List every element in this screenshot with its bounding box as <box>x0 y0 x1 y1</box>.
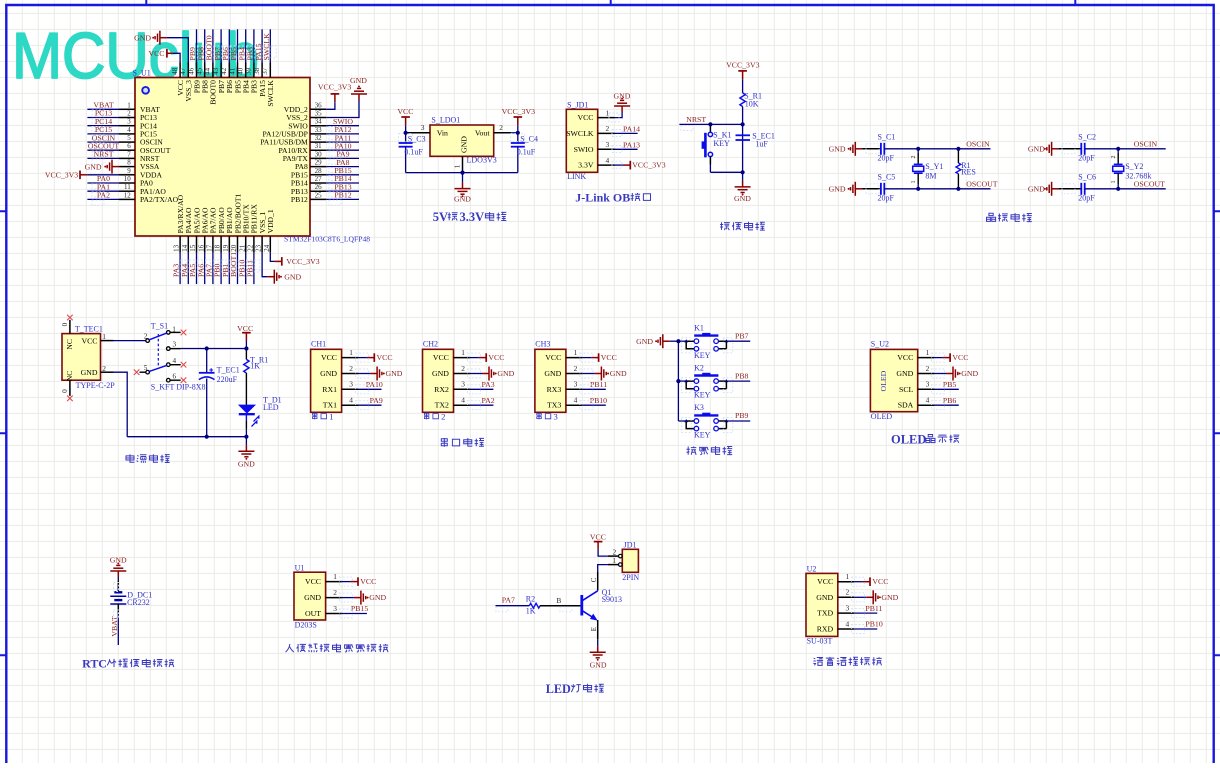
U1 pin 11 PA1/AO <box>119 183 166 196</box>
power VCC_3V3 at U1 pin 36 <box>318 83 351 110</box>
svg-text:1: 1 <box>926 348 930 357</box>
wire net PB6 at S_U2 pin 4 <box>932 396 959 410</box>
U1 pin 15 PA5/AO <box>189 207 201 253</box>
svg-text:RXD: RXD <box>817 625 834 634</box>
svg-text:20pF: 20pF <box>1078 154 1095 163</box>
svg-text:1K: 1K <box>526 607 536 616</box>
ground above RTC battery <box>110 556 127 577</box>
junction LED bottom <box>244 435 248 439</box>
wire net PB12 pin 25 <box>326 191 359 206</box>
wire key ground rail <box>677 341 679 421</box>
svg-text:PA2: PA2 <box>482 396 495 405</box>
designator S_U1 <box>133 68 151 77</box>
capacitor S_C2 20pF <box>1059 132 1096 162</box>
svg-text:VCC: VCC <box>577 113 593 122</box>
capacitor S_C1 20pF <box>862 132 895 162</box>
svg-text:S_KFT DIP-8X8: S_KFT DIP-8X8 <box>151 382 206 391</box>
wire OSCOUT row right <box>1085 179 1166 188</box>
svg-text:VCC: VCC <box>601 353 617 362</box>
svg-text:GND: GND <box>350 76 367 85</box>
U1 pin 13 PA3/RX/AO <box>173 194 185 252</box>
wire net BOOT1 pin 20 <box>229 252 243 284</box>
svg-text:32: 32 <box>315 134 323 142</box>
svg-text:PB7: PB7 <box>735 331 749 340</box>
wire net PA10 at CH1 pin 3 <box>356 380 383 394</box>
junction at LDO pin1 / rail <box>460 171 464 175</box>
crystal S_Y2 32.768k <box>1111 149 1152 189</box>
U1 pin 14 PA4/AO <box>181 207 193 253</box>
svg-text:TYPE-C-2P: TYPE-C-2P <box>76 381 116 390</box>
svg-text:2: 2 <box>144 332 148 340</box>
U1 pin 31 PA10/RX <box>279 142 327 155</box>
U1 pin 18 PB0/AO <box>214 207 226 253</box>
svg-text:29: 29 <box>315 159 323 167</box>
svg-text:Vin: Vin <box>437 129 448 138</box>
svg-text:VCC: VCC <box>377 353 393 362</box>
wire net OSCOUT pin 6 <box>87 141 119 156</box>
wire TEC1 GND down to bottom rail <box>114 372 128 437</box>
CH3 pin 3 RX3 <box>547 380 583 394</box>
capacitor S_C3 0.1uF <box>399 133 426 173</box>
U1 pin 24 VDD_1 <box>263 209 275 253</box>
svg-text:1: 1 <box>612 556 616 565</box>
svg-text:2: 2 <box>499 123 503 132</box>
U1 pin 40 PB4 <box>237 63 251 94</box>
svg-text:41: 41 <box>228 67 236 75</box>
svg-text:OUT: OUT <box>305 609 321 618</box>
svg-text:OLED: OLED <box>879 370 888 391</box>
svg-text:20pF: 20pF <box>1078 194 1095 203</box>
power VCC at CH2 pin 1 <box>468 353 505 362</box>
U1 pin 37 SWCLK <box>261 63 275 107</box>
junction EC1 bottom <box>205 435 209 439</box>
svg-text:PB11: PB11 <box>865 604 882 613</box>
power VCC above power rail <box>237 324 253 349</box>
resistor S_R1 10K <box>740 91 762 108</box>
svg-text:VCC: VCC <box>433 353 449 362</box>
U1 pin 23 VSS_1 <box>255 212 267 253</box>
svg-text:8: 8 <box>127 159 131 167</box>
svg-text:GND: GND <box>110 556 127 565</box>
U1 pin 2 PC13 <box>119 110 157 123</box>
U1 pin 39 PB3 <box>245 63 259 94</box>
svg-text:1: 1 <box>574 348 578 357</box>
U1 pin 33 PA12/USB/DP <box>262 126 326 139</box>
svg-text:CH3: CH3 <box>535 340 550 349</box>
U1 pin 12 PA2/TX/AO <box>119 191 179 204</box>
svg-text:PA9: PA9 <box>370 396 383 405</box>
wire net PA3 pin 13 <box>172 253 186 284</box>
svg-text:LED: LED <box>263 403 279 412</box>
svg-text:2: 2 <box>574 364 578 373</box>
connector JD1 2PIN body <box>622 540 639 582</box>
svg-text:40: 40 <box>237 67 245 75</box>
svg-text:OSCIN: OSCIN <box>1134 139 1158 148</box>
CH3 pin 2 GND <box>544 364 582 378</box>
svg-text:GND: GND <box>816 593 833 602</box>
wire net PB0 pin 18 <box>213 253 227 284</box>
S_LDO1 pin 1 GND <box>453 156 463 172</box>
wire power bottom rail <box>127 436 246 438</box>
wire net PB5 at S_U2 pin 3 <box>932 380 959 394</box>
svg-text:GND: GND <box>881 593 898 602</box>
svg-text:S_Y1: S_Y1 <box>925 162 943 171</box>
wire net PA8 pin 29 <box>326 158 359 173</box>
svg-text:7: 7 <box>127 150 131 158</box>
svg-text:GND: GND <box>386 369 403 378</box>
svg-text:LINK: LINK <box>567 172 586 181</box>
wire net PA2 pin 12 <box>87 191 119 206</box>
svg-text:3: 3 <box>173 341 177 349</box>
wire net SWCLK pin 37 <box>262 29 276 62</box>
svg-text:PA13: PA13 <box>623 141 640 150</box>
svg-text:3: 3 <box>421 123 425 132</box>
svg-text:2: 2 <box>461 364 465 373</box>
svg-text:K3: K3 <box>694 403 704 412</box>
connector S_JD1 LINK body <box>566 100 597 181</box>
svg-text:20pF: 20pF <box>878 194 895 203</box>
wire net PB10 at CH3 pin 4 <box>580 396 607 410</box>
ground at CH2 pin 2 <box>468 367 515 381</box>
svg-text:VCC: VCC <box>81 336 97 345</box>
svg-text:0.1uF: 0.1uF <box>404 148 423 157</box>
svg-text:J-Link OB: J-Link OB <box>575 191 630 205</box>
U1 sensor pin 2 GND <box>304 588 342 602</box>
wire OSCOUT row <box>884 179 997 188</box>
title RTC external power module <box>82 657 174 671</box>
svg-text:LDO3V3: LDO3V3 <box>467 156 497 165</box>
svg-text:27: 27 <box>315 175 323 183</box>
svg-text:1: 1 <box>127 101 131 109</box>
U1 pin 34 SWIO <box>288 118 326 131</box>
svg-text:39: 39 <box>245 67 253 75</box>
svg-text:2: 2 <box>127 110 131 118</box>
svg-text:OSCIN: OSCIN <box>966 139 990 148</box>
svg-text:KEY: KEY <box>694 431 711 440</box>
svg-text:28: 28 <box>315 167 323 175</box>
junction T_R1 top <box>244 346 248 350</box>
capacitor S_C5 20pF <box>862 172 895 202</box>
svg-text:30: 30 <box>315 150 323 158</box>
S_LDO1 pin 3 Vin <box>406 123 430 133</box>
power VCC at U1 pin 48 <box>148 49 180 63</box>
U1 pin 6 OSCOUT <box>119 142 171 155</box>
power VCC at U1 pin 1 <box>339 577 376 586</box>
svg-text:VCC: VCC <box>872 577 888 586</box>
title J-Link OB port <box>575 191 650 205</box>
title 5V to 3.3V circuit <box>433 210 507 224</box>
connector CH1 body <box>311 340 342 413</box>
svg-text:S_C5: S_C5 <box>878 172 896 181</box>
svg-text:NRST: NRST <box>94 150 114 159</box>
JD1 pin 2 <box>608 547 622 557</box>
wire net PA2 at CH2 pin 4 <box>468 396 495 410</box>
svg-text:1: 1 <box>911 181 917 184</box>
svg-text:33: 33 <box>315 126 323 134</box>
power VCC_3V3 above reset <box>726 61 759 93</box>
svg-text:3: 3 <box>333 604 337 613</box>
wire emitter vertical <box>590 620 598 646</box>
CH2 pin 1 VCC <box>433 348 470 362</box>
U1 pin 22 PB11/RX <box>247 204 259 253</box>
pushbutton K3 KEY <box>678 403 732 439</box>
junction key top <box>708 122 712 126</box>
svg-text:C: C <box>590 577 598 582</box>
svg-text:GND: GND <box>544 369 561 378</box>
ground at S_C1 <box>829 142 863 156</box>
title PIR module <box>286 644 389 653</box>
wire net PB5 pin 41 <box>229 29 243 62</box>
display S_U2 OLED body <box>870 339 917 421</box>
svg-text:2: 2 <box>606 124 610 133</box>
svg-text:3: 3 <box>349 380 353 389</box>
svg-text:10K: 10K <box>745 99 759 108</box>
svg-text:SCL: SCL <box>899 385 914 394</box>
junction R1 bottom <box>956 187 960 191</box>
junction S_Y2 top <box>1116 147 1120 151</box>
connector CH3 body <box>535 340 566 413</box>
wire net PA10 pin 31 <box>326 141 359 156</box>
wire net PB1 pin 19 <box>221 253 235 284</box>
svg-text:43: 43 <box>212 67 220 75</box>
wire net PA7 pin 17 <box>205 253 219 284</box>
U1 pin 16 PA6/AO <box>197 207 209 253</box>
svg-text:11: 11 <box>124 183 131 191</box>
svg-text:KEY: KEY <box>694 351 711 360</box>
T_TEC1 pin 1 VCC <box>81 332 113 345</box>
svg-text:0: 0 <box>61 389 69 393</box>
U1 pin 47 VSS_3 <box>179 63 193 102</box>
wire LDO out to C4 <box>511 132 518 134</box>
svg-text:1: 1 <box>453 164 462 168</box>
CH2 pin 3 RX2 <box>434 380 470 394</box>
svg-text:PA7: PA7 <box>502 596 515 605</box>
svg-text:GND: GND <box>134 33 151 42</box>
svg-text:34: 34 <box>315 118 323 126</box>
svg-text:VCC: VCC <box>397 107 413 116</box>
U1 pin 8 VSSA <box>119 159 160 172</box>
wire net PB9 pin 46 <box>188 29 202 62</box>
svg-text:2: 2 <box>333 588 337 597</box>
svg-text:S_Y2: S_Y2 <box>1125 162 1143 171</box>
ground at CH3 pin 2 <box>580 367 627 381</box>
wire resistor to cap rail <box>742 107 744 173</box>
CH2 pin 2 GND <box>432 364 470 378</box>
wire net PA13 at S_JD1 pin 3 <box>612 141 640 153</box>
power VCC at S_U2 pin 1 <box>932 353 969 362</box>
label 串口3 <box>537 412 558 422</box>
U1 pin 43 PB7 <box>212 63 226 94</box>
ground below emitter <box>590 646 607 669</box>
svg-text:10: 10 <box>124 175 132 183</box>
title OLED display <box>891 433 959 447</box>
wire net PA15 pin 38 <box>254 29 268 62</box>
svg-text:GND: GND <box>734 194 751 203</box>
U1 pin 27 PB14 <box>291 175 326 188</box>
svg-text:GND: GND <box>460 136 469 153</box>
svg-text:9: 9 <box>127 167 131 175</box>
svg-text:T_S1: T_S1 <box>151 322 168 331</box>
svg-text:SWIO: SWIO <box>574 145 594 154</box>
svg-text:S_C6: S_C6 <box>1078 172 1096 181</box>
title power circuit <box>126 454 170 463</box>
CH1 pin 2 GND <box>320 364 358 378</box>
svg-text:VCC: VCC <box>817 577 833 586</box>
svg-text:44: 44 <box>204 67 212 75</box>
svg-text:GND: GND <box>238 459 255 468</box>
svg-text:PB15: PB15 <box>351 604 368 613</box>
svg-text:45: 45 <box>196 67 204 75</box>
resistor R2 1K <box>526 594 540 615</box>
title crystal circuit <box>987 213 1032 222</box>
svg-text:GND: GND <box>1028 145 1045 154</box>
junction reset bottom <box>741 170 745 174</box>
ground at S_C5 <box>829 182 863 196</box>
ground at U1 pin 2 <box>339 591 386 605</box>
wire net PB7 at K1 <box>726 331 750 341</box>
capacitor T_EC1 220uF <box>199 349 240 437</box>
svg-text:GND: GND <box>610 369 627 378</box>
svg-text:KEY: KEY <box>713 139 730 148</box>
svg-text:3.3V: 3.3V <box>578 161 594 170</box>
svg-text:3: 3 <box>554 412 558 422</box>
svg-text:GND: GND <box>896 369 913 378</box>
svg-text:47: 47 <box>179 67 187 75</box>
svg-text:S_U1: S_U1 <box>133 68 151 77</box>
svg-text:GND: GND <box>590 660 607 669</box>
T_TEC1 pin 0 bottom <box>61 380 73 401</box>
U1 pin 35 VSS_2 <box>286 110 326 123</box>
wire net PA0 pin 10 <box>87 174 119 189</box>
svg-text:5: 5 <box>127 134 131 142</box>
junction NRST/rail <box>741 122 745 126</box>
svg-text:GND: GND <box>454 195 471 204</box>
svg-text:VCC: VCC <box>952 353 968 362</box>
U2 pin 1 VCC <box>817 572 854 586</box>
S_U2 pin 2 GND <box>896 364 934 378</box>
ground at S_JD1 pin 1 <box>609 92 631 122</box>
wire net PA4 pin 14 <box>180 253 194 284</box>
capacitor S_EC1 1uF <box>736 132 775 149</box>
wire net PA11 pin 32 <box>326 133 359 148</box>
svg-text:220uF: 220uF <box>217 375 238 384</box>
power VCC above JD1 <box>590 532 606 550</box>
LED T_D1 <box>239 395 282 436</box>
svg-text:GND: GND <box>85 162 102 171</box>
svg-text:GND: GND <box>829 145 846 154</box>
svg-text:S_C2: S_C2 <box>1078 132 1096 141</box>
svg-text:3.3V: 3.3V <box>460 210 485 224</box>
svg-text:2: 2 <box>911 156 917 159</box>
CH3 pin 1 VCC <box>545 348 582 362</box>
svg-text:36: 36 <box>315 101 323 109</box>
svg-text:VCC_3V3: VCC_3V3 <box>286 257 319 266</box>
svg-text:4: 4 <box>127 126 131 134</box>
svg-text:1: 1 <box>606 108 610 117</box>
wire switch pin3 to VCC rail <box>181 348 247 350</box>
wire TEC1 VCC to switch <box>114 340 146 342</box>
U1 pin 17 PA7/AO <box>206 207 218 253</box>
wire net PB10 at U2 pin 4 <box>852 620 883 634</box>
resistor T_R1 1K <box>244 349 269 374</box>
U1 pin 30 PA9/TX <box>283 150 326 163</box>
wire OSCIN row <box>884 139 990 148</box>
U1 pin 45 PB8 <box>196 63 210 94</box>
svg-text:K2: K2 <box>694 363 704 372</box>
U1 pin 48 VCC <box>171 63 185 96</box>
S_U2 pin 1 VCC <box>897 348 934 362</box>
svg-text:KEY: KEY <box>694 391 711 400</box>
wire net PB11 at U2 pin 3 <box>852 604 883 618</box>
junction S_Y1 top <box>916 147 920 151</box>
svg-text:NRST: NRST <box>686 115 706 124</box>
svg-text:GND: GND <box>304 593 321 602</box>
svg-text:SWCLK: SWCLK <box>266 80 275 107</box>
svg-text:GND: GND <box>961 369 978 378</box>
U1 pin 42 PB6 <box>220 63 234 94</box>
U1 pin 26 PB13 <box>291 183 326 196</box>
svg-text:2: 2 <box>926 364 930 373</box>
wire resistor to LED <box>245 373 247 405</box>
svg-text:GND: GND <box>432 369 449 378</box>
svg-text:VCC: VCC <box>148 49 164 58</box>
svg-text:4: 4 <box>461 396 465 405</box>
wire net PB11 at CH3 pin 3 <box>580 380 607 394</box>
label 串口2 <box>424 412 445 422</box>
title key circuit <box>687 446 733 455</box>
svg-text:RTC: RTC <box>82 657 107 671</box>
U1 pin 44 BOOT0 <box>204 63 218 105</box>
svg-text:VCC: VCC <box>237 324 253 333</box>
S_LDO1 pin 2 Vout <box>494 123 512 133</box>
U1 pin 19 PB1/AO <box>222 207 234 253</box>
svg-text:GND: GND <box>1028 185 1045 194</box>
svg-text:TXD: TXD <box>817 609 833 618</box>
svg-text:S_C1: S_C1 <box>878 132 896 141</box>
module U2 SU-03T body <box>806 565 838 646</box>
svg-text:LED: LED <box>546 682 571 696</box>
svg-text:42: 42 <box>220 67 228 75</box>
svg-text:VDD_1: VDD_1 <box>266 209 275 233</box>
power VCC at CH1 pin 1 <box>356 353 393 362</box>
junction S_Y1 bottom <box>916 187 920 191</box>
wire net PB6 pin 42 <box>221 29 235 62</box>
svg-text:SDA: SDA <box>898 401 914 410</box>
svg-text:46: 46 <box>187 67 195 75</box>
ground at S_C2 <box>1028 142 1059 156</box>
svg-text:5V: 5V <box>433 210 448 224</box>
svg-text:PB12: PB12 <box>291 195 308 204</box>
svg-text:37: 37 <box>261 67 269 75</box>
power VCC_3V3 at U1 pin 9 VDDA <box>45 171 119 180</box>
U1 pin 28 PB15 <box>291 167 326 180</box>
wire net PB11 pin 22 <box>246 253 260 284</box>
capacitor S_C4 0.1uF <box>511 133 538 173</box>
svg-text:E: E <box>590 627 598 631</box>
wire JD1 pin1 to collector <box>598 565 608 572</box>
svg-text:6: 6 <box>173 372 177 380</box>
svg-text:GND: GND <box>636 337 653 346</box>
wire net PB14 pin 27 <box>326 174 359 189</box>
junction at C3 top <box>404 131 408 135</box>
wire net PB4 pin 40 <box>237 29 251 62</box>
svg-text:NC: NC <box>65 339 74 350</box>
svg-text:VCC: VCC <box>590 532 606 541</box>
svg-text:0.1uF: 0.1uF <box>517 148 536 157</box>
svg-text:PA2/TX/AO: PA2/TX/AO <box>140 195 179 204</box>
svg-text:32.768k: 32.768k <box>1125 172 1151 181</box>
wire net OSCIN pin 5 <box>87 133 119 148</box>
